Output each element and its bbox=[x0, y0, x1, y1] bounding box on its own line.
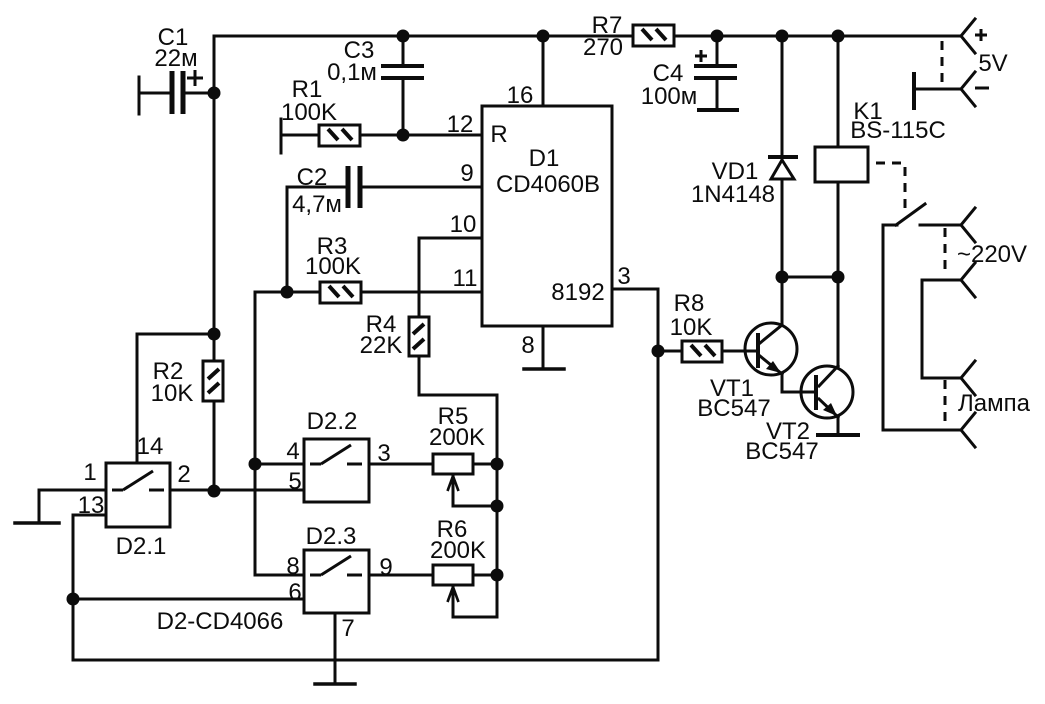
svg-text:D1: D1 bbox=[529, 145, 560, 172]
svg-text:200K: 200K bbox=[430, 537, 486, 564]
svg-text:10: 10 bbox=[450, 211, 477, 238]
svg-text:22м: 22м bbox=[154, 45, 197, 72]
svg-text:10K: 10K bbox=[151, 380, 194, 407]
svg-text:4,7м: 4,7м bbox=[292, 191, 342, 218]
svg-text:22K: 22K bbox=[360, 332, 403, 359]
svg-text:14: 14 bbox=[137, 433, 164, 460]
svg-text:R8: R8 bbox=[674, 290, 705, 317]
svg-text:100м: 100м bbox=[641, 83, 698, 110]
svg-text:D2-CD4066: D2-CD4066 bbox=[157, 608, 284, 635]
svg-text:D2.2: D2.2 bbox=[307, 408, 358, 435]
svg-text:16: 16 bbox=[507, 82, 534, 109]
svg-text:CD4060B: CD4060B bbox=[496, 171, 600, 198]
svg-text:7: 7 bbox=[341, 615, 354, 642]
svg-text:100K: 100K bbox=[305, 253, 361, 280]
svg-text:200K: 200K bbox=[429, 424, 485, 451]
svg-text:1: 1 bbox=[83, 459, 96, 486]
svg-text:3: 3 bbox=[617, 263, 630, 290]
svg-text:100K: 100K bbox=[281, 99, 337, 126]
svg-text:9: 9 bbox=[460, 160, 473, 187]
svg-text:9: 9 bbox=[379, 554, 392, 581]
svg-text:5: 5 bbox=[288, 468, 301, 495]
svg-text:5V: 5V bbox=[978, 50, 1007, 77]
svg-text:8192: 8192 bbox=[551, 279, 604, 306]
svg-text:Лампа: Лампа bbox=[958, 390, 1031, 417]
svg-text:8: 8 bbox=[521, 332, 534, 359]
svg-text:~220V: ~220V bbox=[957, 241, 1027, 268]
svg-text:10K: 10K bbox=[670, 314, 713, 341]
svg-text:13: 13 bbox=[78, 492, 105, 519]
svg-text:D2.1: D2.1 bbox=[116, 533, 167, 560]
svg-text:R: R bbox=[490, 121, 507, 148]
svg-text:2: 2 bbox=[177, 461, 190, 488]
svg-text:12: 12 bbox=[447, 111, 474, 138]
svg-text:270: 270 bbox=[583, 34, 623, 61]
svg-text:BC547: BC547 bbox=[745, 438, 818, 465]
svg-text:D2.3: D2.3 bbox=[306, 523, 357, 550]
svg-text:BS-115C: BS-115C bbox=[850, 117, 946, 144]
svg-text:3: 3 bbox=[377, 440, 390, 467]
svg-text:6: 6 bbox=[288, 579, 301, 606]
svg-text:11: 11 bbox=[453, 265, 478, 292]
svg-text:8: 8 bbox=[286, 553, 299, 580]
svg-text:4: 4 bbox=[286, 438, 299, 465]
svg-text:1N4148: 1N4148 bbox=[691, 181, 775, 208]
svg-text:C2: C2 bbox=[297, 164, 328, 191]
svg-text:BC547: BC547 bbox=[697, 395, 770, 422]
svg-text:0,1м: 0,1м bbox=[327, 59, 377, 86]
